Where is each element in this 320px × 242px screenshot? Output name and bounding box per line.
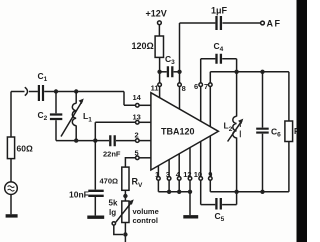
wire AF rail (180, 22, 261, 24)
wire pin9 to node (210, 191, 236, 193)
capacitor C4 (201, 41, 237, 83)
pin 8 (178, 83, 186, 109)
svg-text:C6: C6 (271, 127, 281, 139)
wire 120R to pin 11 (159, 57, 161, 83)
inductor L2 (224, 72, 244, 192)
svg-text:22nF: 22nF (103, 150, 121, 159)
svg-text:C1: C1 (38, 71, 48, 83)
svg-text:3: 3 (166, 170, 170, 179)
svg-text:10nF: 10nF (69, 190, 89, 200)
svg-text:TBA120: TBA120 (161, 127, 195, 137)
wire pin5 to RV (125, 158, 135, 167)
node C6 top (260, 70, 264, 74)
resistor 120R (132, 36, 164, 57)
pin 2 (135, 130, 151, 142)
svg-text:8: 8 (182, 84, 186, 93)
svg-text:11: 11 (151, 84, 159, 93)
input connector (25, 87, 28, 95)
svg-text:C3: C3 (165, 54, 175, 66)
label volume control (133, 207, 159, 225)
wire RV to pot (124, 190, 126, 201)
svg-text:2: 2 (135, 130, 139, 139)
capacitor C2 (38, 92, 63, 141)
node bus 3 (167, 190, 171, 194)
svg-text:control: control (133, 216, 158, 225)
svg-text:7: 7 (204, 82, 208, 91)
pin 10 (194, 142, 203, 205)
svg-text:120Ω: 120Ω (132, 41, 154, 51)
ground source (6, 214, 18, 217)
node C6 bottom (260, 190, 264, 194)
svg-text:L2: L2 (224, 121, 233, 134)
wire bottom node row (56, 140, 96, 142)
ground IC (183, 215, 198, 218)
potentiometer 5k volume (109, 199, 134, 242)
inductor L1 (61, 92, 92, 141)
node C2 top (54, 89, 58, 93)
node C3 left (157, 70, 161, 74)
wire input left (11, 92, 25, 138)
node L2 top (234, 70, 238, 74)
capacitor C3 (160, 54, 180, 77)
resistor 60R (7, 137, 33, 159)
capacitor C5 (201, 192, 237, 223)
resistor RV 470R (100, 167, 144, 190)
svg-text:C2: C2 (38, 110, 48, 122)
svg-text:5: 5 (135, 149, 139, 158)
svg-text:volume: volume (133, 207, 159, 216)
svg-text:13: 13 (133, 113, 141, 122)
pin 1 (155, 166, 160, 192)
svg-text:C4: C4 (214, 41, 224, 53)
capacitor 22nF (95, 135, 135, 158)
node bus 12 (188, 190, 192, 194)
node L1 bottom (74, 138, 78, 142)
node bus 4 (177, 190, 181, 194)
svg-text:AF: AF (267, 19, 282, 29)
svg-text:+12V: +12V (146, 9, 167, 19)
svg-text:C5: C5 (215, 211, 225, 223)
pin 4 (176, 154, 181, 192)
resistor R load (285, 72, 300, 192)
svg-text:1μF: 1μF (211, 6, 228, 16)
pin 14 (133, 93, 151, 107)
ground 10nF (87, 215, 104, 218)
svg-text:12: 12 (183, 170, 191, 179)
wire pin13 branch (95, 122, 135, 140)
svg-text:L1: L1 (83, 111, 92, 124)
pin 6 (194, 82, 203, 121)
node tank bottom left (234, 190, 238, 194)
pin 5 (135, 149, 151, 160)
svg-text:6: 6 (194, 82, 198, 91)
source AC (5, 159, 18, 215)
wire pin 8 riser (179, 23, 181, 83)
node RV pot (123, 194, 127, 198)
wire ground bus (158, 191, 190, 193)
svg-text:9: 9 (208, 170, 212, 179)
svg-text:10: 10 (194, 170, 202, 179)
capacitor 1uF (211, 6, 228, 31)
wire connector to C1 (29, 91, 38, 93)
node bottom junction (93, 138, 97, 142)
node L1 top (74, 89, 78, 93)
svg-text:60Ω: 60Ω (17, 144, 33, 154)
op-amp U1 TBA120 (151, 93, 219, 170)
capacitor C1 (38, 71, 48, 101)
terminal AF (261, 19, 282, 29)
svg-text:14: 14 (133, 93, 142, 102)
svg-text:1: 1 (155, 170, 159, 179)
scan edge black bar (297, 0, 308, 242)
pin 3 (166, 160, 171, 192)
capacitor 10nF (69, 141, 104, 216)
node C3 right (177, 70, 181, 74)
node pot bottom (123, 232, 127, 236)
pin 11 (151, 83, 162, 98)
svg-text:RV: RV (132, 177, 144, 190)
wire C1 to pin 14 (44, 92, 135, 106)
capacitor C6 (256, 72, 281, 192)
supply +12V (146, 9, 167, 37)
pin 9 (208, 136, 212, 192)
svg-text:lg: lg (109, 208, 116, 217)
wire tank top rail (210, 71, 289, 73)
pin 12 (183, 148, 192, 216)
svg-text:470Ω: 470Ω (100, 177, 119, 186)
pin 13 (133, 113, 151, 125)
wire tank bottom rail (237, 191, 289, 193)
pin 7 (204, 72, 212, 127)
svg-text:5k: 5k (109, 199, 118, 208)
